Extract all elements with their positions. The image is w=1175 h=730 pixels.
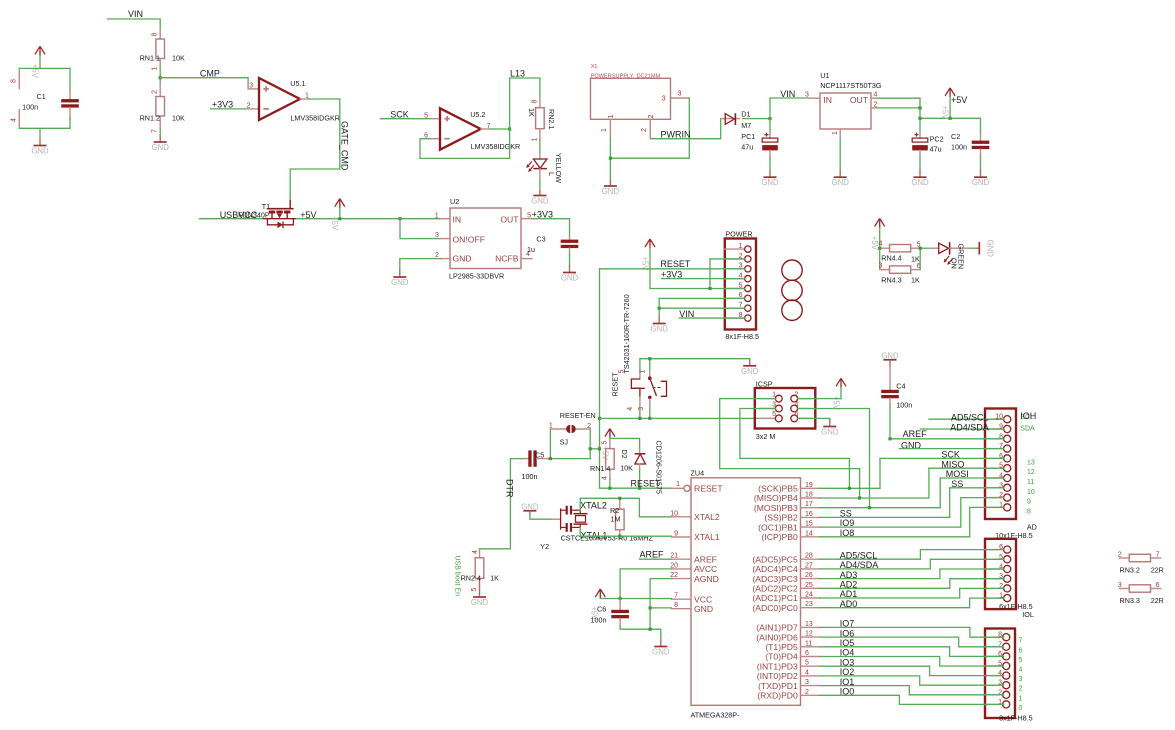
svg-text:(T1)PD5: (T1)PD5 bbox=[765, 642, 798, 652]
svg-text:(INT1)PD3: (INT1)PD3 bbox=[757, 661, 798, 671]
svg-text:7: 7 bbox=[674, 593, 678, 600]
op-amp U5.1 LMV358IDGKR bbox=[247, 78, 340, 123]
junction bbox=[638, 487, 641, 490]
svg-text:1K: 1K bbox=[911, 254, 920, 263]
wire XTAL1 bbox=[580, 527, 671, 536]
svg-text:RN3.3: RN3.3 bbox=[1120, 596, 1140, 605]
wire DTR bbox=[480, 459, 524, 549]
wire bbox=[19, 67, 70, 69]
wire bbox=[620, 626, 661, 640]
op-amp U5.2 LMV358IDGKR bbox=[424, 108, 520, 151]
svg-text:GND: GND bbox=[531, 197, 549, 206]
wire AVCC bbox=[620, 569, 671, 599]
wire bbox=[639, 408, 641, 418]
resistor RN4.4 1K bbox=[879, 241, 921, 264]
resistor R2 1M bbox=[610, 498, 624, 536]
svg-text:(INT0)PD2: (INT0)PD2 bbox=[757, 671, 798, 681]
wire GND (conn) bbox=[899, 448, 1003, 450]
capacitor PC1 47u bbox=[741, 132, 778, 158]
svg-text:27: 27 bbox=[805, 562, 813, 569]
svg-text:1: 1 bbox=[832, 131, 839, 135]
svg-text:(SCK)PB5: (SCK)PB5 bbox=[758, 484, 798, 494]
wire VCC bbox=[600, 598, 671, 600]
junction bbox=[658, 307, 661, 310]
wire MISO (ICSP) bbox=[720, 399, 860, 498]
svg-text:2: 2 bbox=[795, 391, 799, 398]
svg-text:10: 10 bbox=[1027, 489, 1035, 496]
svg-text:PC1: PC1 bbox=[741, 132, 755, 141]
svg-text:7: 7 bbox=[1156, 552, 1160, 559]
svg-text:26: 26 bbox=[805, 572, 813, 579]
svg-text:IO9: IO9 bbox=[840, 518, 855, 528]
svg-text:6: 6 bbox=[1019, 647, 1023, 654]
svg-text:1: 1 bbox=[1019, 695, 1023, 702]
resistor RN1.1 10K bbox=[140, 30, 185, 71]
svg-text:(SS)PB2: (SS)PB2 bbox=[764, 513, 798, 523]
node digits 7-0 bbox=[1019, 638, 1023, 712]
svg-text:U2: U2 bbox=[450, 197, 459, 206]
junction bbox=[549, 457, 552, 460]
svg-text:IN: IN bbox=[823, 95, 832, 105]
junction bbox=[919, 247, 922, 250]
wire IO7 bbox=[820, 627, 1004, 637]
svg-text:3: 3 bbox=[249, 82, 253, 89]
IC U2 LP2985-33DBVR bbox=[435, 197, 532, 281]
svg-text:5: 5 bbox=[424, 113, 428, 120]
wire IO0 bbox=[820, 695, 1004, 704]
wire bbox=[876, 107, 920, 109]
svg-text:+3V3: +3V3 bbox=[212, 99, 233, 109]
svg-text:(OC1)PB1: (OC1)PB1 bbox=[758, 522, 798, 532]
svg-text:YELLOW: YELLOW bbox=[554, 153, 563, 183]
power +5V (RN1.4) bbox=[600, 429, 615, 461]
svg-text:XTAL1: XTAL1 bbox=[581, 531, 608, 541]
connector ICSP 3x2M bbox=[755, 380, 816, 442]
svg-text:(ADC1)PC1: (ADC1)PC1 bbox=[752, 593, 798, 603]
svg-text:1u: 1u bbox=[527, 245, 535, 254]
svg-text:19: 19 bbox=[805, 482, 813, 489]
svg-text:2: 2 bbox=[152, 90, 159, 94]
junction bbox=[848, 487, 851, 490]
svg-text:3: 3 bbox=[805, 92, 809, 99]
capacitor C3 1u bbox=[527, 235, 578, 254]
svg-text:1: 1 bbox=[608, 115, 615, 119]
ground (U2) bbox=[391, 270, 409, 288]
svg-text:25: 25 bbox=[805, 582, 813, 589]
ground (PC1) bbox=[761, 170, 779, 187]
ground (U1) bbox=[832, 170, 850, 187]
wire bbox=[549, 429, 551, 459]
svg-text:8: 8 bbox=[1027, 508, 1031, 515]
svg-text:(ADC0)PC0: (ADC0)PC0 bbox=[752, 603, 798, 613]
svg-text:GND: GND bbox=[561, 274, 579, 283]
svg-text:PWRIN: PWRIN bbox=[661, 129, 691, 139]
svg-text:ZU4: ZU4 bbox=[691, 469, 705, 478]
wire SCK (conn) bbox=[880, 457, 1004, 459]
svg-text:VIN: VIN bbox=[128, 9, 143, 19]
svg-text:(ADC4)PC4: (ADC4)PC4 bbox=[752, 564, 798, 574]
svg-text:1: 1 bbox=[739, 243, 743, 250]
power +5V (RN4) bbox=[870, 218, 885, 250]
junction bbox=[159, 76, 162, 79]
svg-text:RN1.2: RN1.2 bbox=[140, 114, 160, 123]
svg-text:RN1.4: RN1.4 bbox=[590, 464, 610, 473]
svg-text:ON!OFF: ON!OFF bbox=[453, 234, 485, 244]
power +5V (POWER) bbox=[640, 239, 655, 271]
svg-text:5: 5 bbox=[602, 441, 609, 445]
junction bbox=[619, 597, 622, 600]
svg-text:2: 2 bbox=[1019, 686, 1023, 693]
svg-text:AVCC: AVCC bbox=[694, 564, 717, 574]
svg-text:2: 2 bbox=[1118, 552, 1122, 559]
svg-text:100n: 100n bbox=[951, 143, 967, 152]
junction bbox=[888, 437, 891, 440]
wire bbox=[297, 218, 441, 220]
svg-text:(TXD)PD1: (TXD)PD1 bbox=[758, 681, 798, 691]
wire bbox=[539, 140, 541, 152]
svg-text:16: 16 bbox=[805, 511, 813, 518]
wire bbox=[839, 138, 841, 170]
svg-text:9: 9 bbox=[1027, 499, 1031, 506]
svg-text:15: 15 bbox=[805, 521, 813, 528]
wire IO6 bbox=[820, 637, 1004, 647]
svg-text:3: 3 bbox=[435, 232, 439, 239]
wire bbox=[770, 98, 810, 119]
svg-text:RESET: RESET bbox=[694, 484, 723, 494]
wire AD0 bbox=[820, 598, 1004, 608]
wire bbox=[798, 417, 830, 419]
resistor RN4.3 1K bbox=[879, 262, 921, 284]
svg-text:2: 2 bbox=[648, 115, 655, 119]
svg-text:6: 6 bbox=[805, 650, 809, 657]
svg-text:12: 12 bbox=[805, 631, 813, 638]
svg-text:AD: AD bbox=[1027, 522, 1037, 531]
wire bbox=[876, 98, 920, 131]
svg-text:GND: GND bbox=[741, 367, 759, 376]
svg-text:10K: 10K bbox=[172, 53, 185, 62]
junction bbox=[608, 487, 611, 490]
junction bbox=[649, 606, 652, 609]
junction bbox=[508, 127, 511, 130]
wire bbox=[19, 127, 70, 129]
svg-text:USB boot En: USB boot En bbox=[454, 556, 461, 597]
svg-text:5: 5 bbox=[772, 411, 776, 418]
svg-text:2: 2 bbox=[247, 102, 251, 109]
svg-text:22R: 22R bbox=[1151, 566, 1164, 575]
svg-text:M7: M7 bbox=[741, 121, 751, 130]
svg-text:AREF: AREF bbox=[903, 429, 928, 439]
svg-text:47u: 47u bbox=[930, 144, 942, 153]
svg-text:TS42031-160R-TR-7260: TS42031-160R-TR-7260 bbox=[622, 294, 631, 373]
wire IO4 bbox=[820, 657, 1004, 667]
ground (C3) bbox=[561, 265, 579, 283]
svg-text:C4: C4 bbox=[896, 382, 905, 391]
svg-text:GND: GND bbox=[986, 240, 995, 258]
wire bbox=[380, 118, 430, 120]
resistor RN1.2 10K bbox=[140, 83, 185, 133]
ground (RN2.4) bbox=[471, 597, 489, 607]
svg-text:5: 5 bbox=[471, 588, 478, 592]
svg-text:GND: GND bbox=[652, 648, 670, 657]
svg-text:9: 9 bbox=[674, 531, 678, 538]
svg-text:RN4.3: RN4.3 bbox=[881, 276, 901, 285]
svg-text:GND: GND bbox=[602, 187, 620, 196]
capacitor C1 100n bbox=[11, 68, 79, 128]
svg-text:100n: 100n bbox=[22, 103, 38, 112]
connector IOH 10x1F-H8.5 bbox=[985, 409, 1037, 541]
svg-text:(MISO)PB4: (MISO)PB4 bbox=[754, 493, 798, 503]
svg-text:1K: 1K bbox=[527, 108, 536, 117]
svg-text:(AIN0)PD6: (AIN0)PD6 bbox=[756, 632, 798, 642]
wire bbox=[569, 253, 571, 265]
svg-text:NCFB: NCFB bbox=[495, 254, 519, 264]
svg-text:1: 1 bbox=[676, 481, 680, 488]
svg-text:10: 10 bbox=[670, 510, 678, 517]
ground (ICSP) bbox=[821, 418, 839, 436]
junction bbox=[768, 117, 771, 120]
svg-text:1: 1 bbox=[531, 138, 538, 142]
svg-text:5: 5 bbox=[805, 660, 809, 667]
svg-text:22R: 22R bbox=[1151, 596, 1164, 605]
ground (POWER) bbox=[651, 317, 669, 334]
svg-text:(T0)PD4: (T0)PD4 bbox=[765, 652, 798, 662]
wire row16 SS bbox=[820, 516, 950, 518]
resistor RN2.1 1K bbox=[527, 97, 556, 142]
svg-text:C1: C1 bbox=[37, 92, 46, 101]
wire bbox=[920, 118, 981, 133]
wire bbox=[769, 158, 771, 170]
svg-text:GND: GND bbox=[31, 147, 49, 156]
wire bbox=[769, 119, 771, 132]
resistor RN3.3 22R bbox=[1118, 582, 1164, 605]
wire SCK (ICSP) bbox=[740, 409, 850, 489]
svg-text:IOH: IOH bbox=[1020, 411, 1036, 421]
wire IO5 bbox=[820, 647, 1004, 657]
LED L YELLOW bbox=[526, 153, 563, 184]
wire AD2 bbox=[820, 579, 1004, 589]
svg-text:1K: 1K bbox=[490, 574, 499, 583]
svg-text:ATMEGA328P-: ATMEGA328P- bbox=[691, 711, 741, 720]
wire bbox=[659, 307, 744, 309]
svg-text:10K: 10K bbox=[620, 464, 633, 473]
junction bbox=[648, 357, 651, 360]
svg-text:13: 13 bbox=[1027, 459, 1035, 466]
svg-text:(ADC3)PC3: (ADC3)PC3 bbox=[752, 574, 798, 584]
capacitor C4 100n bbox=[881, 367, 912, 410]
svg-text:4: 4 bbox=[602, 476, 609, 480]
svg-text:3: 3 bbox=[879, 262, 883, 269]
svg-text:1: 1 bbox=[435, 212, 439, 219]
capacitor PC2 47u bbox=[912, 131, 943, 158]
svg-text:(ADC5)PC5: (ADC5)PC5 bbox=[752, 554, 798, 564]
svg-text:1: 1 bbox=[772, 391, 776, 398]
svg-text:VCC: VCC bbox=[694, 594, 712, 604]
wire bbox=[650, 119, 720, 139]
svg-text:1K: 1K bbox=[911, 276, 920, 285]
ground (PC2) bbox=[911, 170, 929, 187]
svg-text:RESET: RESET bbox=[660, 259, 691, 269]
wire bbox=[160, 78, 248, 89]
junction bbox=[868, 506, 871, 509]
wire bbox=[108, 19, 161, 30]
junction bbox=[918, 106, 921, 109]
svg-text:2: 2 bbox=[805, 689, 809, 696]
wire AGND bbox=[650, 579, 671, 630]
junction bbox=[589, 447, 592, 450]
svg-text:C5: C5 bbox=[535, 451, 544, 460]
wire feedback bbox=[420, 129, 510, 158]
svg-text:GND: GND bbox=[694, 604, 713, 614]
svg-text:2: 2 bbox=[641, 128, 648, 132]
wire bbox=[743, 118, 771, 120]
svg-text:3: 3 bbox=[805, 679, 809, 686]
svg-text:RN4.4: RN4.4 bbox=[881, 254, 901, 263]
svg-text:SCK: SCK bbox=[390, 110, 409, 120]
junction bbox=[398, 217, 401, 220]
svg-text:4: 4 bbox=[472, 550, 479, 554]
wire IO2 bbox=[820, 676, 1004, 685]
wire bbox=[639, 470, 641, 488]
wire AREF (conn) bbox=[890, 404, 1004, 439]
svg-text:8: 8 bbox=[531, 100, 538, 104]
wire bbox=[798, 398, 841, 400]
wire bbox=[879, 458, 881, 488]
svg-text:+3V3: +3V3 bbox=[532, 209, 553, 219]
svg-text:24: 24 bbox=[805, 592, 813, 599]
svg-text:X1: X1 bbox=[591, 64, 598, 70]
svg-text:RESET: RESET bbox=[631, 479, 662, 489]
junction bbox=[598, 417, 601, 420]
IC U1 NCP1117ST50T3G bbox=[805, 71, 882, 138]
wire IO1 bbox=[820, 686, 1004, 695]
svg-text:GND: GND bbox=[152, 143, 170, 152]
svg-text:6: 6 bbox=[795, 411, 799, 418]
svg-text:U1: U1 bbox=[820, 71, 829, 80]
svg-text:Y2: Y2 bbox=[540, 542, 549, 551]
ground (LED) bbox=[531, 190, 549, 206]
switch RESET TS42031-160R-TR-7260 bbox=[611, 294, 667, 410]
svg-text:XTAL1: XTAL1 bbox=[694, 532, 720, 542]
junction bbox=[878, 247, 881, 250]
junction bbox=[638, 417, 641, 420]
wire bbox=[640, 558, 672, 560]
junction bbox=[618, 497, 621, 500]
svg-text:L13: L13 bbox=[510, 69, 525, 79]
wire SS (conn) bbox=[950, 487, 1004, 489]
svg-text:8x1F-H8.5: 8x1F-H8.5 bbox=[725, 332, 759, 341]
svg-text:3: 3 bbox=[1118, 582, 1122, 589]
wire bbox=[928, 468, 930, 498]
svg-text:D2: D2 bbox=[620, 450, 629, 459]
svg-text:U5.2: U5.2 bbox=[470, 110, 485, 119]
wire bbox=[530, 515, 552, 520]
svg-text:7: 7 bbox=[1019, 638, 1023, 645]
svg-text:100n: 100n bbox=[896, 401, 912, 410]
svg-text:GND: GND bbox=[391, 278, 409, 287]
wire AD1 bbox=[820, 588, 1004, 598]
junction bbox=[609, 157, 612, 160]
svg-text:100n: 100n bbox=[591, 616, 607, 625]
svg-text:47u: 47u bbox=[741, 142, 753, 151]
svg-text:3: 3 bbox=[1019, 676, 1023, 683]
connector POWER 8x1F-H8.5 bbox=[725, 229, 759, 340]
ground (C1) bbox=[31, 139, 49, 156]
power +5V (U1) bbox=[941, 88, 956, 120]
wire AD4/SDA bbox=[820, 559, 1004, 569]
junction bbox=[338, 217, 341, 220]
wire row17 bbox=[820, 507, 940, 509]
wire AD3 bbox=[820, 569, 1004, 579]
svg-text:1: 1 bbox=[601, 128, 608, 132]
svg-text:5: 5 bbox=[619, 370, 626, 374]
wire bbox=[920, 247, 930, 249]
junction bbox=[649, 628, 652, 631]
svg-text:AD4/SDA: AD4/SDA bbox=[950, 422, 989, 432]
svg-text:RESET: RESET bbox=[611, 372, 620, 397]
wire row15 IO9 bbox=[820, 498, 1004, 527]
connector AD 6x1F-H8.5 bbox=[985, 539, 1034, 619]
svg-text:1M: 1M bbox=[611, 515, 621, 524]
svg-text:GND: GND bbox=[832, 178, 850, 187]
svg-text:SJ: SJ bbox=[560, 438, 569, 447]
wire bbox=[589, 429, 591, 459]
svg-text:4: 4 bbox=[1019, 667, 1023, 674]
power +5V (C1) bbox=[30, 46, 45, 78]
svg-text:GND: GND bbox=[453, 254, 472, 264]
svg-text:23: 23 bbox=[805, 601, 813, 608]
resistor RN3.2 22R bbox=[1118, 552, 1164, 575]
svg-text:8: 8 bbox=[11, 79, 18, 83]
wire RESET rail bbox=[600, 417, 776, 419]
wire bbox=[710, 258, 745, 260]
wire bbox=[662, 278, 745, 280]
svg-text:XTAL2: XTAL2 bbox=[694, 512, 720, 522]
wire GATE_CMD bbox=[290, 99, 340, 200]
svg-text:4: 4 bbox=[874, 92, 878, 99]
wire bbox=[159, 66, 161, 83]
wire bbox=[679, 317, 744, 319]
wire bbox=[640, 358, 750, 360]
svg-text:LMV358IDGKR: LMV358IDGKR bbox=[471, 142, 521, 151]
ground (RN1.2) bbox=[152, 135, 170, 153]
svg-text:RN2.1: RN2.1 bbox=[547, 109, 556, 129]
mounting holes bbox=[782, 260, 802, 320]
ground (C2) bbox=[972, 170, 990, 187]
svg-text:1: 1 bbox=[305, 92, 309, 99]
power +5V (VCC) bbox=[595, 589, 605, 599]
svg-text:XTAL2: XTAL2 bbox=[580, 501, 607, 511]
svg-text:POWER: POWER bbox=[725, 229, 752, 238]
svg-text:(AIN1)PD7: (AIN1)PD7 bbox=[756, 623, 798, 633]
wire bbox=[610, 98, 689, 158]
svg-text:OUT: OUT bbox=[500, 214, 519, 224]
svg-text:(ADC2)PC2: (ADC2)PC2 bbox=[752, 584, 798, 594]
power +5V (ICSP) bbox=[831, 378, 846, 410]
wire bbox=[69, 117, 71, 128]
ground (switch) bbox=[741, 359, 759, 376]
wire bbox=[709, 259, 711, 289]
wire bbox=[939, 478, 941, 508]
svg-text:11: 11 bbox=[805, 640, 812, 647]
svg-text:GND: GND bbox=[761, 178, 779, 187]
wire bbox=[980, 156, 982, 170]
resonator Y2 CSTCE16M0V53-R0 16MHZ bbox=[540, 506, 653, 551]
svg-text:12: 12 bbox=[1027, 469, 1035, 476]
svg-text:SDA: SDA bbox=[1020, 426, 1035, 433]
svg-text:10K: 10K bbox=[172, 114, 185, 123]
junction bbox=[708, 287, 711, 290]
svg-text:5: 5 bbox=[527, 212, 531, 219]
